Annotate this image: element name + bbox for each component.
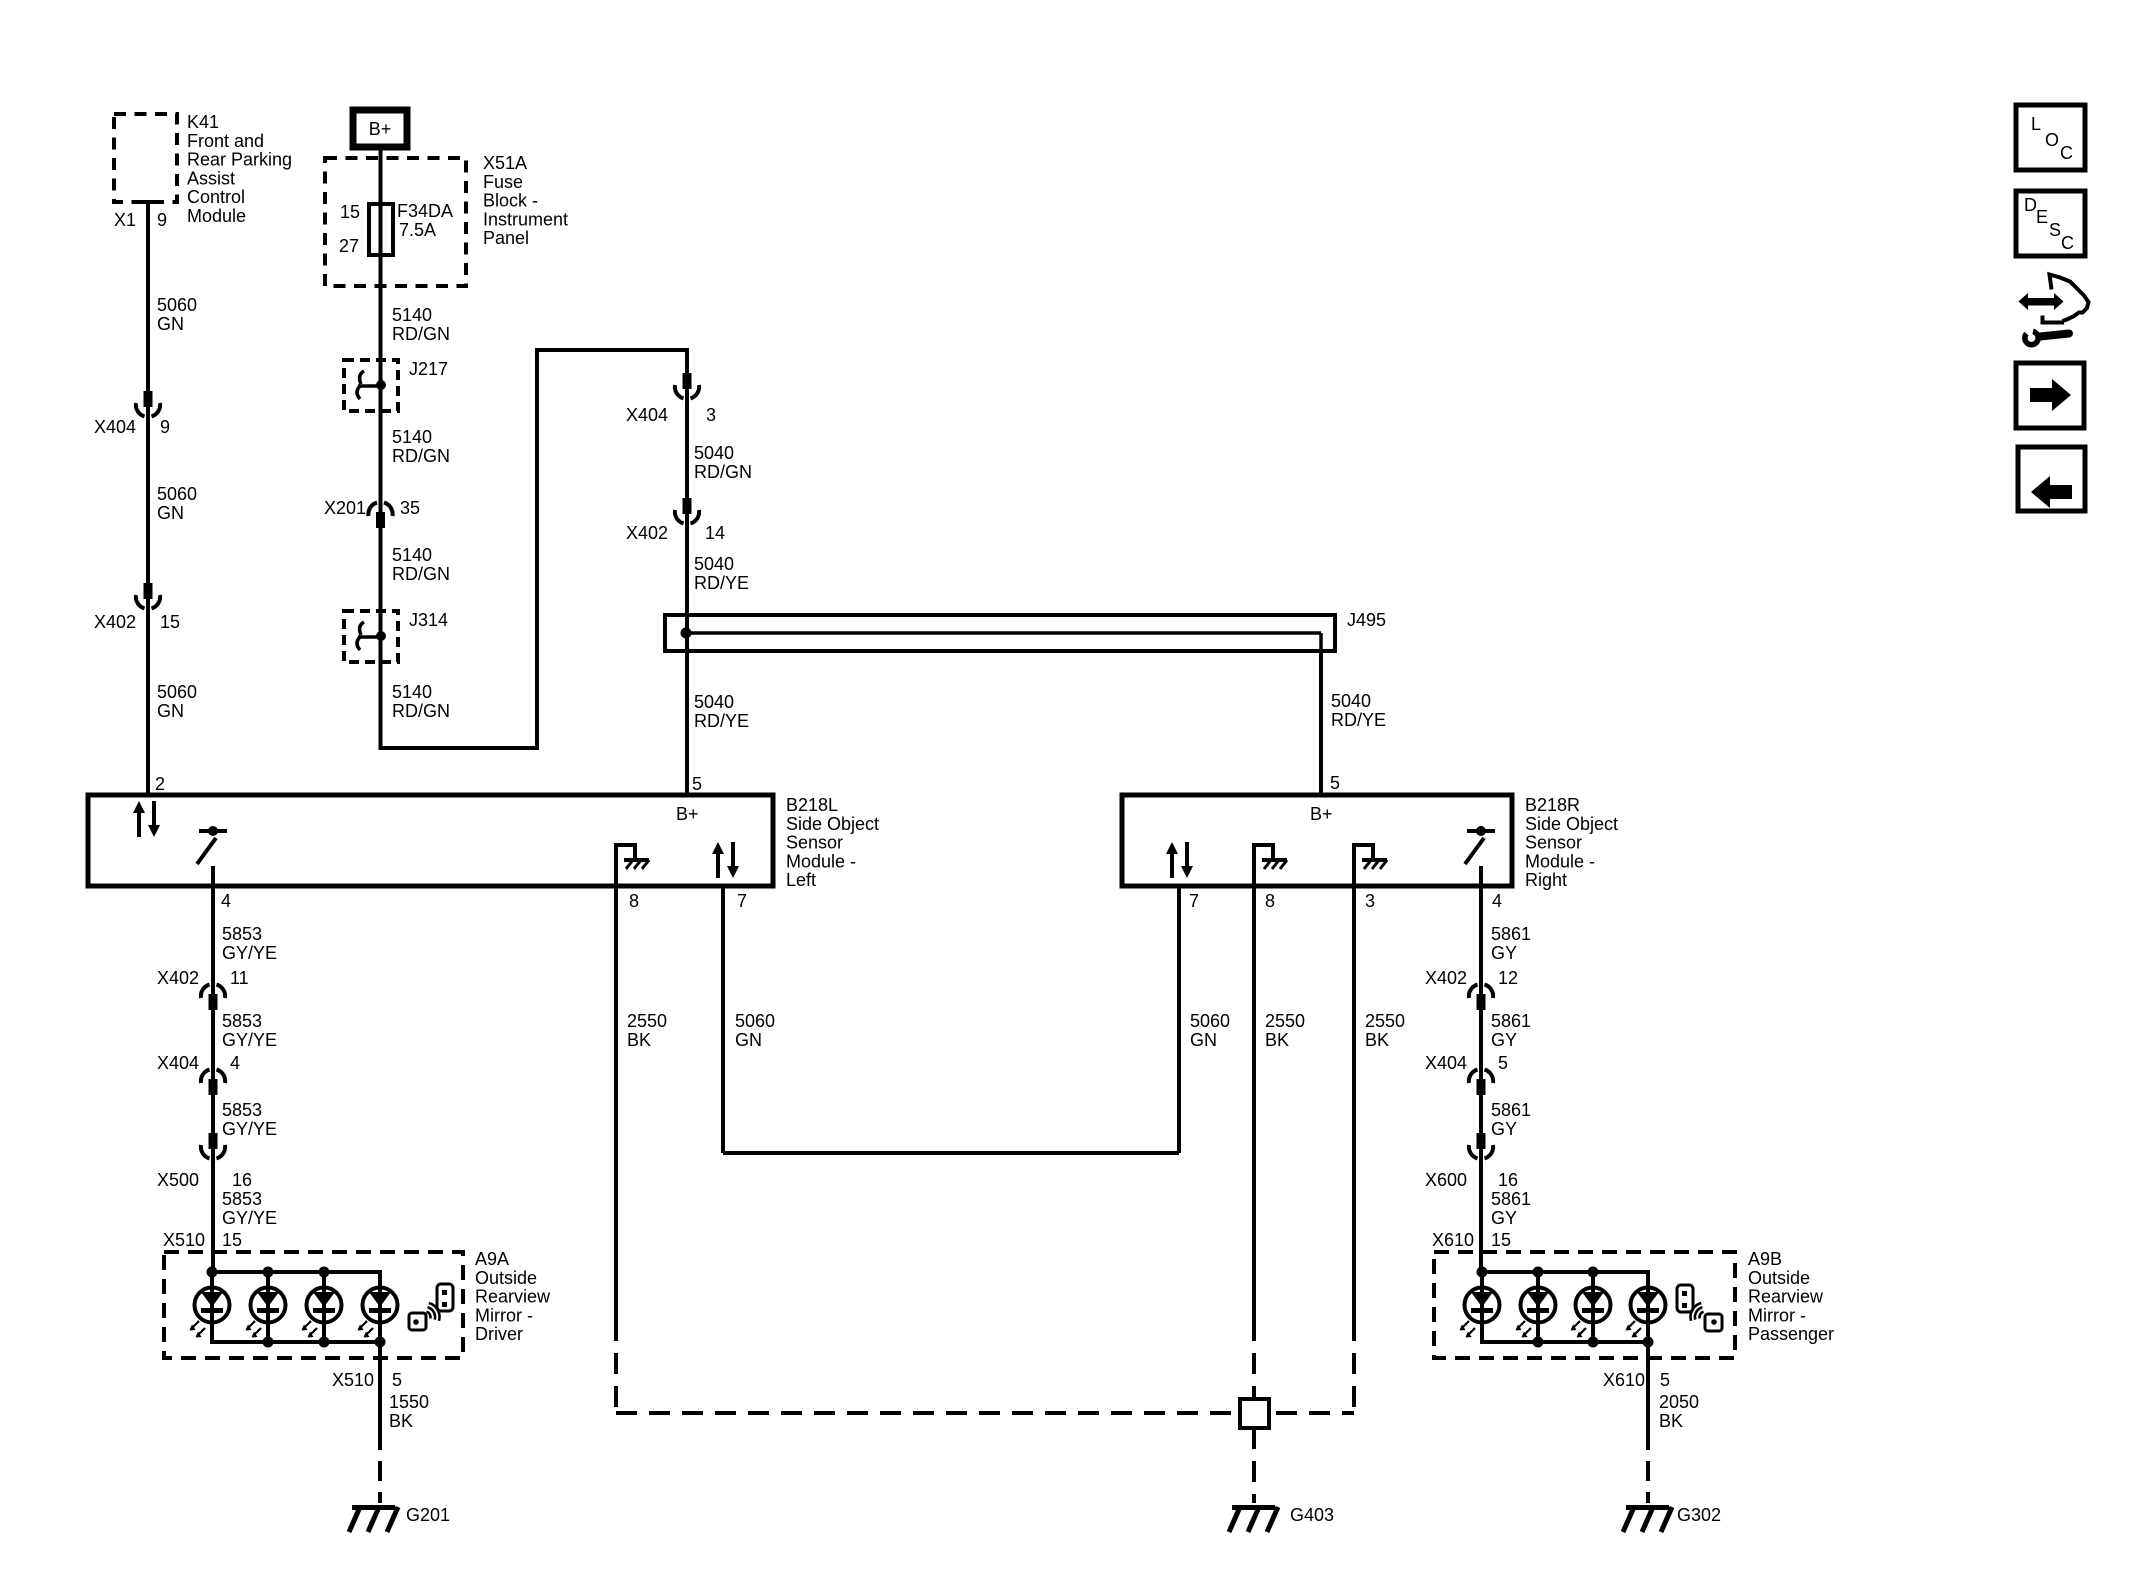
svg-text:Right: Right [1525, 870, 1567, 890]
svg-text:X500: X500 [157, 1170, 199, 1190]
svg-text:RD/GN: RD/GN [694, 462, 752, 482]
svg-text:5060: 5060 [735, 1011, 775, 1031]
svg-text:X404: X404 [157, 1053, 199, 1073]
svg-text:5853: 5853 [222, 924, 262, 944]
svg-text:5: 5 [692, 774, 702, 794]
svg-text:5861: 5861 [1491, 924, 1531, 944]
svg-text:3: 3 [1365, 891, 1375, 911]
svg-text:5853: 5853 [222, 1011, 262, 1031]
svg-text:X404: X404 [626, 405, 668, 425]
svg-text:3: 3 [706, 405, 716, 425]
svg-text:GY/YE: GY/YE [222, 1119, 277, 1139]
svg-text:J217: J217 [409, 359, 448, 379]
svg-text:9: 9 [157, 210, 167, 230]
svg-text:X510: X510 [332, 1370, 374, 1390]
svg-text:BK: BK [1365, 1030, 1389, 1050]
svg-text:A9A: A9A [475, 1249, 509, 1269]
svg-text:16: 16 [1498, 1170, 1518, 1190]
svg-text:J495: J495 [1347, 610, 1386, 630]
svg-text:B+: B+ [676, 804, 699, 824]
svg-text:5040: 5040 [1331, 691, 1371, 711]
svg-text:X402: X402 [157, 968, 199, 988]
svg-text:GN: GN [735, 1030, 762, 1050]
svg-text:2: 2 [155, 774, 165, 794]
svg-text:Module -: Module - [786, 851, 856, 871]
svg-text:G302: G302 [1677, 1505, 1721, 1525]
svg-text:5: 5 [392, 1370, 402, 1390]
svg-text:12: 12 [1498, 968, 1518, 988]
svg-text:X610: X610 [1603, 1370, 1645, 1390]
svg-text:RD/GN: RD/GN [392, 324, 450, 344]
svg-text:14: 14 [705, 523, 725, 543]
svg-text:GY: GY [1491, 1119, 1517, 1139]
svg-text:B+: B+ [369, 119, 392, 139]
svg-text:2050: 2050 [1659, 1392, 1699, 1412]
svg-text:GN: GN [157, 503, 184, 523]
svg-text:Mirror -: Mirror - [475, 1305, 533, 1325]
svg-text:A9B: A9B [1748, 1249, 1782, 1269]
svg-text:G403: G403 [1290, 1505, 1334, 1525]
svg-text:X1: X1 [114, 210, 136, 230]
svg-text:GN: GN [157, 314, 184, 334]
svg-text:Rear Parking: Rear Parking [187, 150, 292, 170]
svg-text:GN: GN [157, 701, 184, 721]
svg-text:BK: BK [1265, 1030, 1289, 1050]
svg-text:X402: X402 [94, 612, 136, 632]
svg-text:Assist: Assist [187, 168, 235, 188]
svg-text:Mirror -: Mirror - [1748, 1305, 1806, 1325]
svg-text:X402: X402 [1425, 968, 1467, 988]
svg-text:Front and: Front and [187, 131, 264, 151]
svg-text:5060: 5060 [157, 295, 197, 315]
svg-text:E: E [2036, 207, 2048, 227]
svg-text:GY: GY [1491, 943, 1517, 963]
svg-text:Outside: Outside [475, 1268, 537, 1288]
svg-text:5: 5 [1330, 773, 1340, 793]
svg-text:Side Object: Side Object [786, 814, 879, 834]
svg-text:X402: X402 [626, 523, 668, 543]
svg-text:4: 4 [1492, 891, 1502, 911]
svg-text:7: 7 [1189, 891, 1199, 911]
svg-text:RD/GN: RD/GN [392, 564, 450, 584]
svg-text:Module: Module [187, 206, 246, 226]
svg-text:S: S [2049, 220, 2061, 240]
svg-text:BK: BK [389, 1411, 413, 1431]
svg-text:15: 15 [160, 612, 180, 632]
svg-text:Block -: Block - [483, 191, 538, 211]
svg-text:11: 11 [230, 968, 249, 988]
svg-text:Fuse: Fuse [483, 172, 523, 192]
svg-text:X600: X600 [1425, 1170, 1467, 1190]
svg-text:5060: 5060 [157, 484, 197, 504]
svg-text:Instrument: Instrument [483, 209, 568, 229]
svg-text:L: L [2031, 114, 2041, 134]
svg-text:GY/YE: GY/YE [222, 943, 277, 963]
svg-text:G201: G201 [406, 1505, 450, 1525]
svg-text:15: 15 [1491, 1230, 1511, 1250]
svg-text:7.5A: 7.5A [399, 220, 436, 240]
svg-text:5853: 5853 [222, 1100, 262, 1120]
svg-text:BK: BK [1659, 1411, 1683, 1431]
svg-text:5140: 5140 [392, 305, 432, 325]
svg-text:GN: GN [1190, 1030, 1217, 1050]
svg-text:B218R: B218R [1525, 795, 1580, 815]
svg-text:4: 4 [230, 1053, 240, 1073]
svg-text:15: 15 [340, 202, 360, 222]
svg-text:5140: 5140 [392, 682, 432, 702]
svg-text:B+: B+ [1310, 804, 1333, 824]
svg-text:Left: Left [786, 870, 816, 890]
svg-text:5060: 5060 [157, 682, 197, 702]
svg-text:Control: Control [187, 187, 245, 207]
svg-text:Sensor: Sensor [1525, 833, 1582, 853]
svg-text:X51A: X51A [483, 153, 527, 173]
svg-text:5040: 5040 [694, 692, 734, 712]
svg-text:Panel: Panel [483, 228, 529, 248]
svg-text:Sensor: Sensor [786, 833, 843, 853]
svg-text:5140: 5140 [392, 545, 432, 565]
svg-text:5040: 5040 [694, 554, 734, 574]
svg-text:4: 4 [221, 891, 231, 911]
svg-text:9: 9 [160, 417, 170, 437]
svg-text:X404: X404 [1425, 1053, 1467, 1073]
svg-text:5861: 5861 [1491, 1100, 1531, 1120]
svg-text:Side Object: Side Object [1525, 814, 1618, 834]
svg-text:B218L: B218L [786, 795, 838, 815]
svg-text:RD/YE: RD/YE [694, 573, 749, 593]
svg-text:2550: 2550 [1265, 1011, 1305, 1031]
svg-text:16: 16 [232, 1170, 252, 1190]
svg-text:X610: X610 [1432, 1230, 1474, 1250]
svg-text:5853: 5853 [222, 1189, 262, 1209]
svg-text:Module -: Module - [1525, 851, 1595, 871]
svg-text:1550: 1550 [389, 1392, 429, 1412]
svg-text:J314: J314 [409, 610, 448, 630]
svg-text:15: 15 [222, 1230, 242, 1250]
svg-text:RD/YE: RD/YE [1331, 710, 1386, 730]
svg-text:8: 8 [629, 891, 639, 911]
svg-text:5: 5 [1660, 1370, 1670, 1390]
svg-text:GY/YE: GY/YE [222, 1030, 277, 1050]
svg-text:X404: X404 [94, 417, 136, 437]
svg-text:Driver: Driver [475, 1324, 523, 1344]
svg-text:7: 7 [737, 891, 747, 911]
svg-text:X201: X201 [324, 498, 366, 518]
svg-text:5060: 5060 [1190, 1011, 1230, 1031]
svg-text:8: 8 [1265, 891, 1275, 911]
svg-text:Outside: Outside [1748, 1268, 1810, 1288]
svg-text:27: 27 [339, 236, 359, 256]
svg-text:GY: GY [1491, 1208, 1517, 1228]
svg-text:2550: 2550 [627, 1011, 667, 1031]
svg-text:5040: 5040 [694, 443, 734, 463]
svg-text:GY: GY [1491, 1030, 1517, 1050]
svg-text:Rearview: Rearview [475, 1287, 551, 1307]
svg-text:35: 35 [400, 498, 420, 518]
svg-text:5861: 5861 [1491, 1189, 1531, 1209]
svg-text:F34DA: F34DA [397, 201, 453, 221]
svg-text:5: 5 [1498, 1053, 1508, 1073]
svg-text:2550: 2550 [1365, 1011, 1405, 1031]
svg-text:RD/GN: RD/GN [392, 701, 450, 721]
svg-text:RD/YE: RD/YE [694, 711, 749, 731]
svg-text:C: C [2061, 233, 2074, 253]
svg-text:C: C [2060, 143, 2073, 163]
svg-text:5140: 5140 [392, 427, 432, 447]
svg-text:X510: X510 [163, 1230, 205, 1250]
svg-text:O: O [2045, 130, 2059, 150]
svg-text:RD/GN: RD/GN [392, 446, 450, 466]
svg-text:Passenger: Passenger [1748, 1324, 1834, 1344]
svg-text:GY/YE: GY/YE [222, 1208, 277, 1228]
svg-text:Rearview: Rearview [1748, 1287, 1824, 1307]
svg-text:BK: BK [627, 1030, 651, 1050]
svg-text:K41: K41 [187, 112, 219, 132]
svg-text:5861: 5861 [1491, 1011, 1531, 1031]
